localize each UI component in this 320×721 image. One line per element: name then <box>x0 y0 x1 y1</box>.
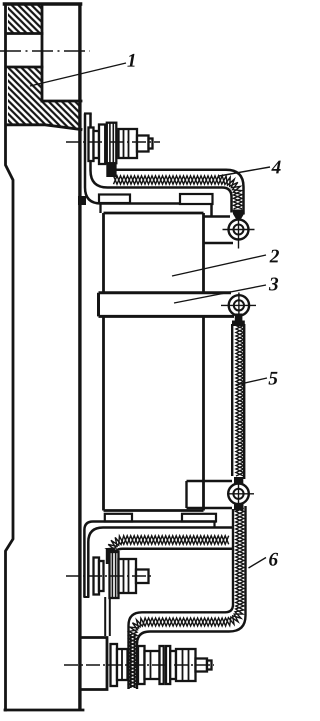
wall outline <box>5 4 83 710</box>
strip 5 left edge <box>231 324 233 476</box>
bracket 4 flange inner line and strap bottom edge <box>91 114 232 213</box>
leader line 6 <box>249 558 267 569</box>
label 6 <box>269 553 278 566</box>
strip 5 right edge <box>243 324 245 479</box>
wall hatched section top block <box>8 4 81 130</box>
bracket 6 plate line and flange outer <box>84 522 216 598</box>
bottom strap foot inner lines <box>131 634 135 688</box>
bracket 6 foot lines below middle bolt <box>105 597 110 636</box>
spacer line B3 <box>121 649 123 680</box>
texture b4 <box>114 176 243 209</box>
bracket 4 strap top edge <box>113 170 244 215</box>
bracket 4 tip blob <box>233 210 245 220</box>
strip 5 bottom tip <box>234 477 243 485</box>
texture b6t <box>107 536 229 553</box>
centerline bolt B1 <box>66 141 160 143</box>
pivot P2 crosshair <box>221 293 256 320</box>
leader line 2 <box>172 255 266 276</box>
boss at wall bottom <box>81 638 107 690</box>
centerline bolt B2 <box>66 575 153 577</box>
bracket 6 tip top blob <box>234 504 244 511</box>
centerline hole 1 <box>0 50 90 52</box>
pivot P2 outer circle <box>229 295 249 315</box>
strip 5 neck top <box>235 314 243 322</box>
bracket 6 right strap right edge and bottom strap bottom edge <box>137 506 246 689</box>
lug of pivot P1 <box>204 217 234 244</box>
bottom tab left <box>105 514 132 522</box>
pivot P1 pin <box>234 225 244 235</box>
leader line 5 <box>236 378 267 385</box>
label 4 <box>271 161 280 174</box>
top tab right <box>180 194 213 204</box>
pivot P2 pin <box>234 300 244 310</box>
wall right edge <box>78 3 81 710</box>
texture b6r <box>129 508 244 688</box>
label 3 <box>269 278 278 291</box>
texture s5 <box>236 322 244 476</box>
leader line 4 <box>219 167 270 176</box>
wall top edge <box>5 2 81 6</box>
tab stub right bottom <box>213 522 215 528</box>
bottom tab right <box>182 514 216 522</box>
top tab left <box>99 195 130 204</box>
pivot P1 outer circle <box>229 220 249 240</box>
pivot P1 crosshair <box>223 216 255 249</box>
bracket 4 flange top tick <box>84 112 92 114</box>
body top-left stub <box>99 204 101 214</box>
bracket 6 flange bottom tick <box>83 596 89 598</box>
bar 3 <box>99 293 235 317</box>
big washer laminations B2 <box>112 553 115 597</box>
wall-bracket junction blob <box>78 196 86 205</box>
bracket 4 flange outer line and plate line <box>85 114 212 217</box>
bolt B2 stack (middle) <box>94 552 149 598</box>
centerline bolt B3 <box>64 664 214 666</box>
nut facets B1 <box>124 129 129 158</box>
label 5 <box>269 372 278 385</box>
bolt B3 stack (bottom) <box>111 644 212 686</box>
washer foot on bracket 6 strap <box>106 548 115 564</box>
bolt B1 stack (top) <box>89 123 153 164</box>
washer foot on bracket 4 <box>106 159 116 177</box>
bracket 6 right strap left edge and bottom strap top edge <box>129 509 234 689</box>
label 1 <box>127 54 134 67</box>
pivot P3 pin <box>233 489 243 499</box>
label 2 <box>270 250 279 263</box>
pivot P3 crosshair <box>227 481 254 508</box>
bracket 6 strap bottom edge <box>114 549 233 558</box>
nut facets B2 <box>124 559 129 593</box>
big washer laminations B1 <box>110 124 113 163</box>
pivot P3 outer circle <box>228 484 249 505</box>
body 2 outline <box>104 213 204 511</box>
leader line 3 <box>174 285 266 303</box>
bracket 6 strap top edge and flange inner <box>88 528 232 598</box>
lug of pivot P3 <box>187 481 233 508</box>
leader line 1 <box>30 63 126 86</box>
nut facets B3 <box>151 649 189 681</box>
